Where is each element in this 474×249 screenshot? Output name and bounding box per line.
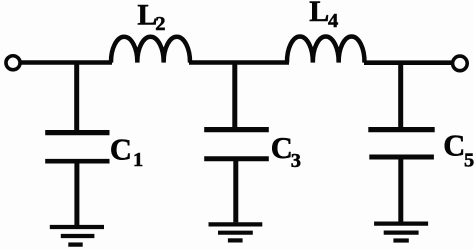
svg-text:5: 5 [464,150,474,172]
inductor L2 [111,37,190,63]
wire: C1 to ground [74,161,79,225]
ground (below C5) [374,224,428,241]
wire: node B down to C3 [232,63,237,128]
capacitor C5 bottom plate [369,155,434,160]
capacitor C1 bottom plate [45,159,109,164]
svg-text:L: L [309,0,329,28]
wire: C3 to ground [233,159,238,223]
input terminal (left port circle) [6,56,20,70]
svg-text:1: 1 [133,149,143,171]
capacitor C3 bottom plate [204,156,269,161]
svg-text:C: C [110,132,132,166]
ground (below C1) [50,227,104,245]
wire: L4 to output terminal [364,60,452,65]
wire: L2 to node B [189,60,289,65]
capacitor C5 top plate [368,127,434,132]
wire: C5 to ground [398,157,403,222]
capacitor C3 top plate [204,127,269,132]
svg-text:3: 3 [291,150,301,172]
svg-text:2: 2 [155,13,165,35]
svg-text:C: C [443,129,465,163]
ground (below C3) [209,224,263,240]
svg-text:4: 4 [328,10,338,32]
capacitor C1 top plate [45,130,109,135]
output terminal (right port circle) [453,56,468,71]
wire: node C down to C5 [398,63,403,128]
wire: node A down to C1 [74,63,79,131]
svg-text:C: C [271,131,293,165]
wire: input terminal to node A [20,60,112,65]
inductor L4 [287,36,364,62]
